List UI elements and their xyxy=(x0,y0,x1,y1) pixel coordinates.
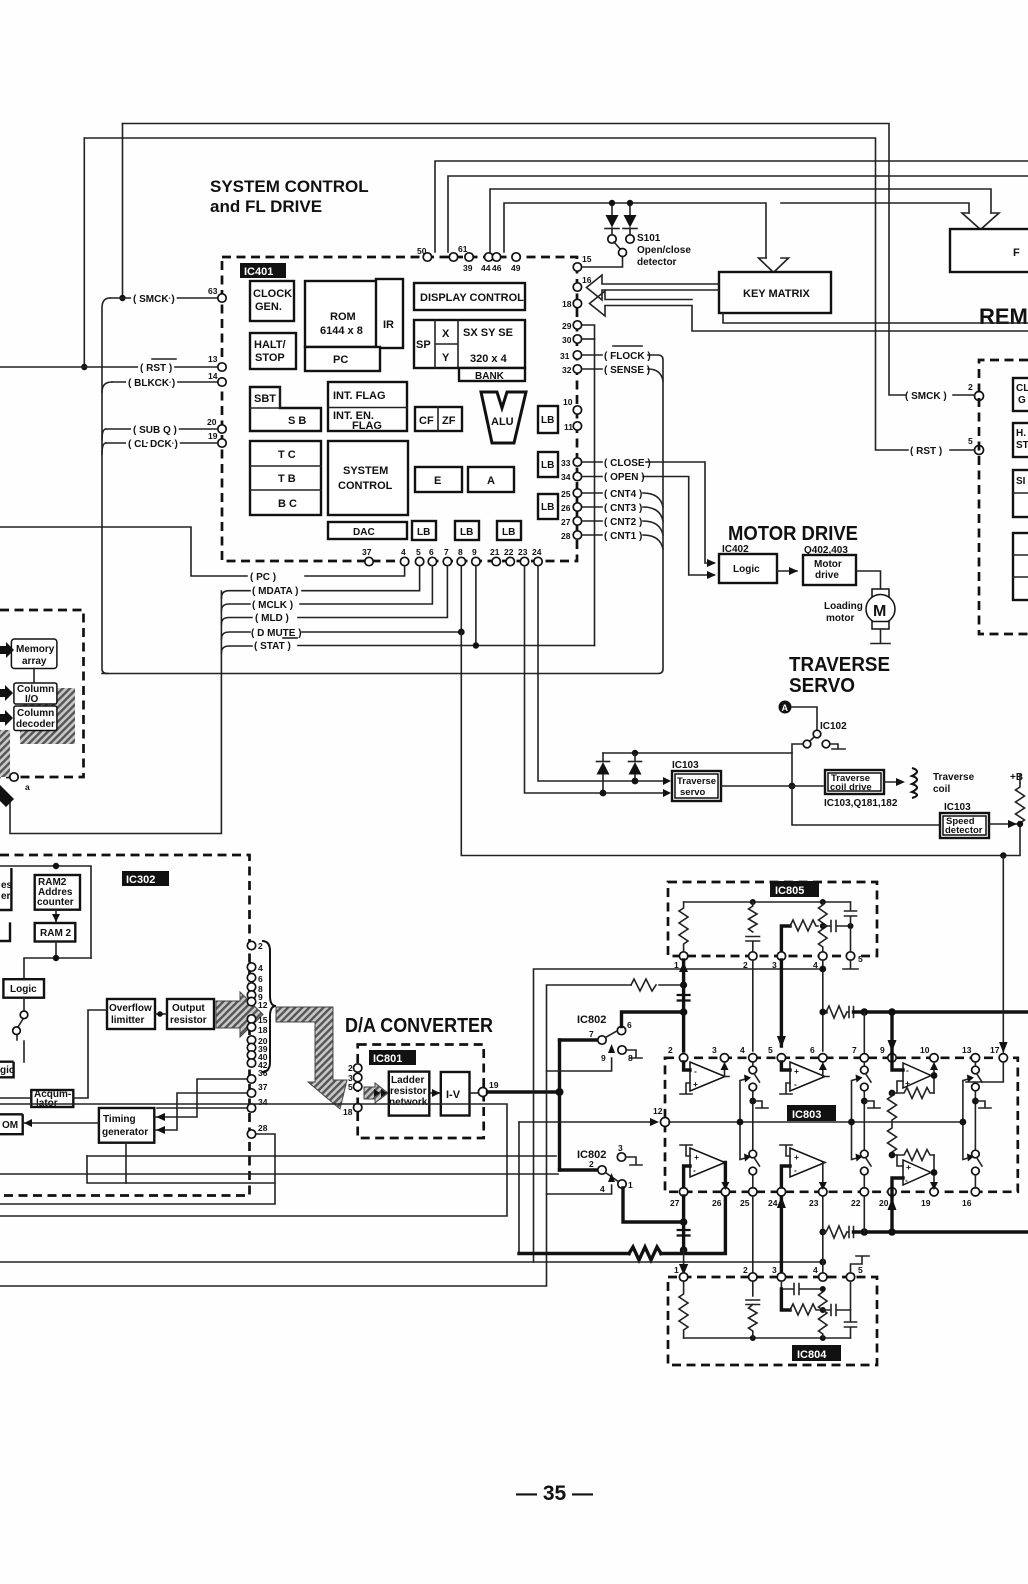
ground IC805 pin5 xyxy=(843,960,858,969)
wire IC802 pin6 to IC803 pin2 xyxy=(622,1012,684,1027)
pin 12 IC803 xyxy=(661,1118,670,1127)
wire STAT row xyxy=(221,646,594,654)
svg-text:motor: motor xyxy=(826,613,854,624)
svg-text:G: G xyxy=(1018,395,1026,406)
wire bus line y1156 xyxy=(87,1155,556,1157)
wire pin28 elbow xyxy=(0,1134,275,1204)
pin 5 IC804 xyxy=(846,1273,854,1281)
svg-text:coil: coil xyxy=(933,784,950,795)
svg-text:-: - xyxy=(694,1066,697,1076)
capacitor IC805 pin5 xyxy=(845,902,857,952)
svg-text:2: 2 xyxy=(589,1159,594,1169)
svg-text:Motor: Motor xyxy=(814,559,842,570)
svg-text:GEN.: GEN. xyxy=(255,301,282,313)
svg-text:1: 1 xyxy=(674,960,679,970)
wire speed detector output xyxy=(989,823,1020,825)
wire pin30 stub xyxy=(582,338,595,340)
svg-text:( RST ): ( RST ) xyxy=(140,363,172,374)
wire CLOSE row to Logic xyxy=(582,462,714,563)
svg-text:array: array xyxy=(22,656,47,667)
svg-text:SERVO: SERVO xyxy=(789,675,855,697)
svg-text:RAM 2: RAM 2 xyxy=(40,928,72,939)
svg-text:-: - xyxy=(905,1175,908,1185)
svg-text:T B: T B xyxy=(278,473,296,485)
wire pin36 to timing xyxy=(155,1079,248,1117)
wire SMCK label line xyxy=(110,297,218,299)
wire KEY MATRIX bottom xyxy=(723,313,1028,323)
wire IC802 pin1 to IC803 pin27 column xyxy=(623,1188,684,1222)
block Logic2 cut xyxy=(0,1062,14,1078)
svg-text:34: 34 xyxy=(258,1097,268,1107)
wire IC803 pin27 to IC804 pin1 column xyxy=(682,1196,685,1250)
wire SMCK bundle arc xyxy=(102,298,110,674)
block BANK xyxy=(459,368,525,381)
pin 13 IC803 xyxy=(971,1054,979,1062)
block cut counter left xyxy=(0,868,11,910)
svg-text:+: + xyxy=(693,1079,698,1089)
wire bus line y1174 xyxy=(0,1173,558,1175)
wire MCLK row xyxy=(221,566,432,611)
wire IC804 bottom rail xyxy=(684,1337,851,1339)
capacitor IC805 pin4 to pin5 xyxy=(823,921,851,932)
svg-text:+: + xyxy=(905,1078,910,1088)
block LB r2 xyxy=(538,452,558,477)
wire +B lead xyxy=(1019,774,1021,783)
block LB b2 xyxy=(455,521,479,540)
pin 2 remote xyxy=(975,392,984,401)
svg-text:4: 4 xyxy=(813,960,818,970)
arrow into Memory array xyxy=(0,642,14,658)
resistor +B xyxy=(1016,783,1025,824)
svg-text:( CNT1 ): ( CNT1 ) xyxy=(604,531,642,542)
IC801 dashed box xyxy=(358,1045,484,1139)
svg-text:50: 50 xyxy=(417,246,427,256)
svg-text:7: 7 xyxy=(852,1045,857,1055)
svg-text:( SMCK ): ( SMCK ) xyxy=(905,391,947,402)
svg-text:2: 2 xyxy=(348,1063,353,1073)
svg-text:( MCLK ): ( MCLK ) xyxy=(252,600,293,611)
op-amp U4 IC803 bottom-mid xyxy=(780,1145,827,1190)
pin 3 IC803 xyxy=(720,1054,728,1062)
svg-text:LB: LB xyxy=(541,460,554,471)
svg-text:( SUB Q ): ( SUB Q ) xyxy=(133,425,177,436)
resistor IC805 pin1 xyxy=(679,902,688,952)
wire y1012 thick segment xyxy=(854,1010,1028,1013)
block RAM2 Addres counter xyxy=(35,875,80,910)
wire IC805 pin2 to IC803 pin4 xyxy=(752,960,754,1051)
memory dashed box xyxy=(0,610,84,777)
svg-text:TRAVERSE: TRAVERSE xyxy=(789,654,890,676)
block Column decoder xyxy=(14,706,57,731)
pin 15 IC302 xyxy=(247,1015,255,1023)
block Traverse servo xyxy=(672,771,721,801)
svg-text:24: 24 xyxy=(532,547,542,557)
pin 36 IC302 xyxy=(247,1075,255,1083)
wire pin12 internal rail xyxy=(669,1121,963,1123)
block LB b1 xyxy=(412,521,436,540)
svg-text:6: 6 xyxy=(429,547,434,557)
pin 8 xyxy=(457,557,465,565)
svg-text:CF: CF xyxy=(419,415,434,427)
pin 20 IC803 xyxy=(888,1188,896,1196)
svg-text:IR: IR xyxy=(383,319,394,331)
svg-text:6: 6 xyxy=(810,1045,815,1055)
pin 2 IC803 xyxy=(679,1054,687,1062)
svg-text:S101: S101 xyxy=(637,233,661,244)
resistor chain mid upper xyxy=(888,1093,897,1122)
svg-text:SP: SP xyxy=(416,339,431,351)
wire servo to coil drive xyxy=(721,785,823,787)
svg-text:( CNT2 ): ( CNT2 ) xyxy=(604,517,642,528)
wire IC804 pin3 to IC803 pin24 thick xyxy=(780,1198,783,1273)
svg-text:resistor: resistor xyxy=(390,1086,427,1097)
svg-text:23: 23 xyxy=(809,1198,819,1208)
svg-text:( CL DCK ): ( CL DCK ) xyxy=(128,439,178,450)
pin 49 xyxy=(512,253,520,261)
svg-text:8: 8 xyxy=(458,547,463,557)
svg-text:( SMCK ): ( SMCK ) xyxy=(133,294,175,305)
svg-text:10: 10 xyxy=(563,397,573,407)
pin 32 xyxy=(573,365,581,373)
switch group A pins 4-25 xyxy=(737,1062,768,1188)
wire IC805 top rail xyxy=(684,901,851,903)
op-amp U1 IC803 top-left xyxy=(680,1062,729,1094)
label IC401 xyxy=(240,263,286,278)
wire CNT1 row xyxy=(582,535,663,549)
svg-text:20: 20 xyxy=(879,1198,889,1208)
svg-text:Memory: Memory xyxy=(16,644,55,655)
pin 20 IC302 xyxy=(247,1036,255,1044)
block ALU xyxy=(481,392,526,443)
wire bus B vertical xyxy=(0,985,684,1286)
svg-text:( MDATA ): ( MDATA ) xyxy=(252,586,298,597)
svg-text:25: 25 xyxy=(740,1198,750,1208)
svg-text:19: 19 xyxy=(489,1080,499,1090)
wire CLDCK label line xyxy=(106,442,218,444)
wire overflow to output arrow xyxy=(155,1013,165,1015)
svg-text:and FL DRIVE: and FL DRIVE xyxy=(210,197,322,216)
switch group B pins 7-22 xyxy=(848,1062,880,1188)
block DISPLAY CONTROL xyxy=(414,283,525,310)
pin 9 IC302 xyxy=(247,991,255,999)
svg-text:detector: detector xyxy=(945,825,983,836)
block LB r1 xyxy=(538,406,558,433)
svg-text:IC801: IC801 xyxy=(373,1053,402,1065)
pin 14 xyxy=(218,378,226,386)
capacitor IC804 pin5 xyxy=(845,1281,857,1338)
wire pin37 to timing xyxy=(155,1093,248,1130)
wire pin23 to traverse lower xyxy=(525,566,669,793)
svg-text:I-V: I-V xyxy=(446,1089,461,1101)
svg-text:23: 23 xyxy=(518,547,528,557)
svg-text:— 35 —: — 35 — xyxy=(516,1482,593,1505)
svg-text:F: F xyxy=(1013,247,1020,259)
svg-text:generator: generator xyxy=(102,1127,148,1138)
arrow into Column decoder xyxy=(0,710,13,726)
svg-text:A: A xyxy=(782,703,789,713)
pin 39 IC302 xyxy=(247,1043,255,1051)
resistor IC805 pin4 tall xyxy=(819,902,828,952)
svg-text:IC103,Q181,182: IC103,Q181,182 xyxy=(824,798,898,809)
svg-text:IC804: IC804 xyxy=(797,1349,827,1361)
motor M402 loading motor xyxy=(866,589,895,644)
svg-text:39: 39 xyxy=(463,263,473,273)
svg-text:28: 28 xyxy=(258,1123,268,1133)
wire BLKCK bundle arc xyxy=(102,382,112,392)
wire timing to ROM xyxy=(23,1122,99,1124)
block TC TB BC xyxy=(250,441,321,515)
block LB r3 xyxy=(538,494,558,519)
pin 5 IC803 xyxy=(777,1054,785,1062)
svg-text:H.: H. xyxy=(1016,428,1026,439)
block SYSTEM CONTROL xyxy=(328,441,408,515)
svg-text:ST: ST xyxy=(1016,440,1028,451)
pin 27 xyxy=(573,517,581,525)
pin 4 IC804 xyxy=(819,1273,827,1281)
pin 19 IC801 xyxy=(478,1088,487,1097)
svg-text:BANK: BANK xyxy=(475,371,505,382)
pin 34 xyxy=(573,472,581,480)
node STAT pin9 junction xyxy=(475,566,477,646)
pin 12 IC302 xyxy=(247,997,255,1005)
shaded arrow to DA converter xyxy=(276,1007,347,1109)
svg-text:counter: counter xyxy=(37,897,74,908)
pin 2 IC805 xyxy=(749,952,757,960)
svg-text:5: 5 xyxy=(348,1082,353,1092)
block Logic IC402 xyxy=(719,554,777,583)
svg-text:T C: T C xyxy=(278,449,296,461)
svg-text:16: 16 xyxy=(582,275,592,285)
block E xyxy=(415,467,462,492)
pin 9 xyxy=(472,557,480,565)
arrow into KEY MATRIX xyxy=(759,258,789,273)
arrow KEY MATRIX to pin18 xyxy=(590,291,1028,331)
pin 2 IC302 xyxy=(247,941,255,949)
pin 10 xyxy=(573,406,581,414)
svg-text:+: + xyxy=(906,1162,911,1172)
IC803 dashed box xyxy=(665,1058,1018,1192)
wire IC805 pin1 to IC803 pin2 thick xyxy=(682,960,685,1051)
wire logic to motor drive xyxy=(777,570,797,572)
IC805 dashed box xyxy=(668,882,877,956)
svg-text:21: 21 xyxy=(490,547,500,557)
block I-V xyxy=(441,1072,470,1116)
svg-text:34: 34 xyxy=(561,472,571,482)
pin 39 xyxy=(465,253,473,261)
svg-text:2: 2 xyxy=(668,1045,673,1055)
block Timing generator xyxy=(99,1108,154,1143)
svg-text:+: + xyxy=(694,1152,699,1162)
pin 29 xyxy=(573,321,581,329)
svg-text:MOTOR DRIVE: MOTOR DRIVE xyxy=(728,523,858,545)
svg-text:Logic: Logic xyxy=(10,984,37,995)
svg-text:2: 2 xyxy=(743,960,748,970)
block Acqumlator xyxy=(31,1090,73,1107)
svg-text:6144 x 8: 6144 x 8 xyxy=(320,325,363,337)
capacitor on pin1 column xyxy=(677,995,691,1001)
svg-text:18: 18 xyxy=(258,1025,268,1035)
svg-text:Output: Output xyxy=(172,1003,205,1014)
svg-text:4: 4 xyxy=(401,547,406,557)
wire MDATA row xyxy=(221,566,419,598)
pin 5 IC801 xyxy=(354,1082,362,1090)
arrowheads into traverse servo xyxy=(663,777,671,797)
wire CNT2 row xyxy=(582,521,663,535)
svg-text:IC302: IC302 xyxy=(126,874,155,886)
svg-text:9: 9 xyxy=(601,1053,606,1063)
svg-text:24: 24 xyxy=(768,1198,778,1208)
svg-text:a: a xyxy=(25,782,30,792)
arrow KEY MATRIX to pin16 xyxy=(587,275,720,300)
wire CNT3 row xyxy=(582,507,663,521)
svg-text:-: - xyxy=(794,1165,797,1175)
brace pin group xyxy=(262,941,276,1072)
pin 26 xyxy=(573,503,581,511)
svg-text:2: 2 xyxy=(968,382,973,392)
shaded region column block xyxy=(20,688,75,744)
wire SMCK left vertical xyxy=(122,124,124,299)
svg-text:7: 7 xyxy=(444,547,449,557)
svg-text:Timing: Timing xyxy=(103,1114,136,1125)
svg-text:( BLKCK ): ( BLKCK ) xyxy=(128,378,175,389)
pin 22 IC803 xyxy=(860,1188,868,1196)
pin 46 xyxy=(492,253,500,261)
svg-text:4: 4 xyxy=(258,963,263,973)
pin 8 IC302 xyxy=(247,983,255,991)
svg-text:13: 13 xyxy=(962,1045,972,1055)
svg-text:OM: OM xyxy=(2,1120,18,1131)
pin 7 xyxy=(443,557,451,565)
wire bus line y1259 to IC804 pin4 column xyxy=(0,1261,823,1263)
svg-text:SYSTEM CONTROL: SYSTEM CONTROL xyxy=(210,177,369,196)
svg-text:32: 32 xyxy=(562,365,572,375)
svg-text:14: 14 xyxy=(208,371,218,381)
svg-text:IC802: IC802 xyxy=(577,1014,606,1026)
wire coil drive output xyxy=(884,781,901,783)
pin 5 IC805 xyxy=(846,952,854,960)
svg-text:IC103: IC103 xyxy=(672,760,699,771)
wire SUBQ label line xyxy=(106,428,218,430)
pin 63 xyxy=(218,294,226,302)
wire RST label line xyxy=(0,366,218,368)
svg-text:17: 17 xyxy=(990,1045,1000,1055)
pin 10 IC803 xyxy=(930,1054,938,1062)
block Output resistor xyxy=(167,999,214,1029)
svg-text:resistor: resistor xyxy=(170,1015,207,1026)
node DMUTE pin8 junction xyxy=(458,629,465,636)
svg-text:3: 3 xyxy=(712,1045,717,1055)
IC804 dashed box xyxy=(668,1277,877,1365)
block CF ZF xyxy=(415,407,462,431)
wire motor drive to motor xyxy=(856,571,881,589)
wire staple pin50 xyxy=(435,161,1028,252)
svg-text:D/A CONVERTER: D/A CONVERTER xyxy=(345,1015,493,1037)
label IC805 xyxy=(770,881,819,897)
wire A to switch xyxy=(792,707,818,730)
svg-text:SX SY SE: SX SY SE xyxy=(463,327,513,339)
svg-text:26: 26 xyxy=(561,503,571,513)
svg-text:SYSTEM: SYSTEM xyxy=(343,465,388,477)
svg-text:15: 15 xyxy=(582,254,592,264)
block Column I/O xyxy=(14,683,57,704)
resistor IC805 horizontal xyxy=(790,920,818,931)
svg-text:28: 28 xyxy=(561,531,571,541)
wire staple pin61 xyxy=(448,176,1028,252)
pin 61 xyxy=(449,253,457,261)
svg-text:( MLD ): ( MLD ) xyxy=(255,613,289,624)
wire bus A vertical xyxy=(534,969,823,1262)
wire thick pin12 to resistor to pin26 xyxy=(519,1192,725,1254)
svg-text:DAC: DAC xyxy=(353,527,375,538)
svg-text:-: - xyxy=(906,1065,909,1075)
block remote b4 xyxy=(1013,533,1028,600)
block Overflow limitter xyxy=(107,999,155,1029)
svg-text:4: 4 xyxy=(740,1045,745,1055)
block remote b1 xyxy=(1013,378,1028,411)
svg-text:( STAT ): ( STAT ) xyxy=(254,641,291,652)
svg-text:Traverse: Traverse xyxy=(677,776,716,787)
pin 13 xyxy=(218,363,226,371)
block Memory array xyxy=(11,639,57,669)
svg-text:27: 27 xyxy=(561,517,571,527)
svg-text:30: 30 xyxy=(562,335,572,345)
wire switch to coil line xyxy=(792,744,803,786)
wire RAM2 to logic net xyxy=(24,942,91,980)
svg-text:Y: Y xyxy=(442,352,450,364)
wire pin9 drop thick xyxy=(890,1012,893,1053)
pin 4 IC803 xyxy=(749,1054,757,1062)
pin 3 IC801 xyxy=(354,1073,362,1081)
svg-text:49: 49 xyxy=(511,263,521,273)
op-amp U2 IC803 top-mid xyxy=(780,1062,829,1094)
block SP X Y SX SY SE 320x4 xyxy=(414,320,525,368)
svg-text:LB: LB xyxy=(417,527,430,538)
switch S101 xyxy=(583,242,623,267)
op-amp U3 IC803 bottom-left xyxy=(680,1145,729,1190)
block remote b2 xyxy=(1013,423,1028,457)
wire acq to overflow xyxy=(73,1010,107,1098)
block ROM cut xyxy=(0,1114,23,1134)
block LB b3 xyxy=(497,521,521,540)
wire trunk to switch2 xyxy=(560,1168,598,1171)
svg-text:REMO: REMO xyxy=(979,304,1028,329)
pin 15 xyxy=(573,263,581,271)
wire IC804 pin3 riser xyxy=(781,1289,790,1310)
svg-text:2: 2 xyxy=(743,1265,748,1275)
svg-text:er: er xyxy=(1,891,11,902)
svg-text:Loading: Loading xyxy=(824,601,863,612)
shaded arrow output resistor xyxy=(216,992,263,1037)
block Speed detector xyxy=(940,813,989,838)
svg-text:15: 15 xyxy=(258,1015,268,1025)
svg-text:X: X xyxy=(442,328,450,340)
svg-text:12: 12 xyxy=(653,1106,663,1116)
svg-text:320 x 4: 320 x 4 xyxy=(470,353,508,365)
resistor feedback U5 xyxy=(892,1088,934,1099)
svg-text:( CLOSE ): ( CLOSE ) xyxy=(604,458,651,469)
wire resistor capacitor row y1012 xyxy=(823,1010,826,1013)
wire DMUTE row xyxy=(221,566,461,639)
pin 5 xyxy=(415,557,423,565)
pin 7 IC803 xyxy=(860,1054,868,1062)
svg-text:29: 29 xyxy=(562,321,572,331)
op-amp U5 IC803 top-right xyxy=(892,1053,938,1093)
block IR xyxy=(376,279,403,348)
svg-text:ALU: ALU xyxy=(491,416,514,428)
svg-text:CLOCK: CLOCK xyxy=(253,288,292,300)
wire memory array to column io xyxy=(33,669,35,684)
pin 4 IC302 xyxy=(247,963,255,971)
